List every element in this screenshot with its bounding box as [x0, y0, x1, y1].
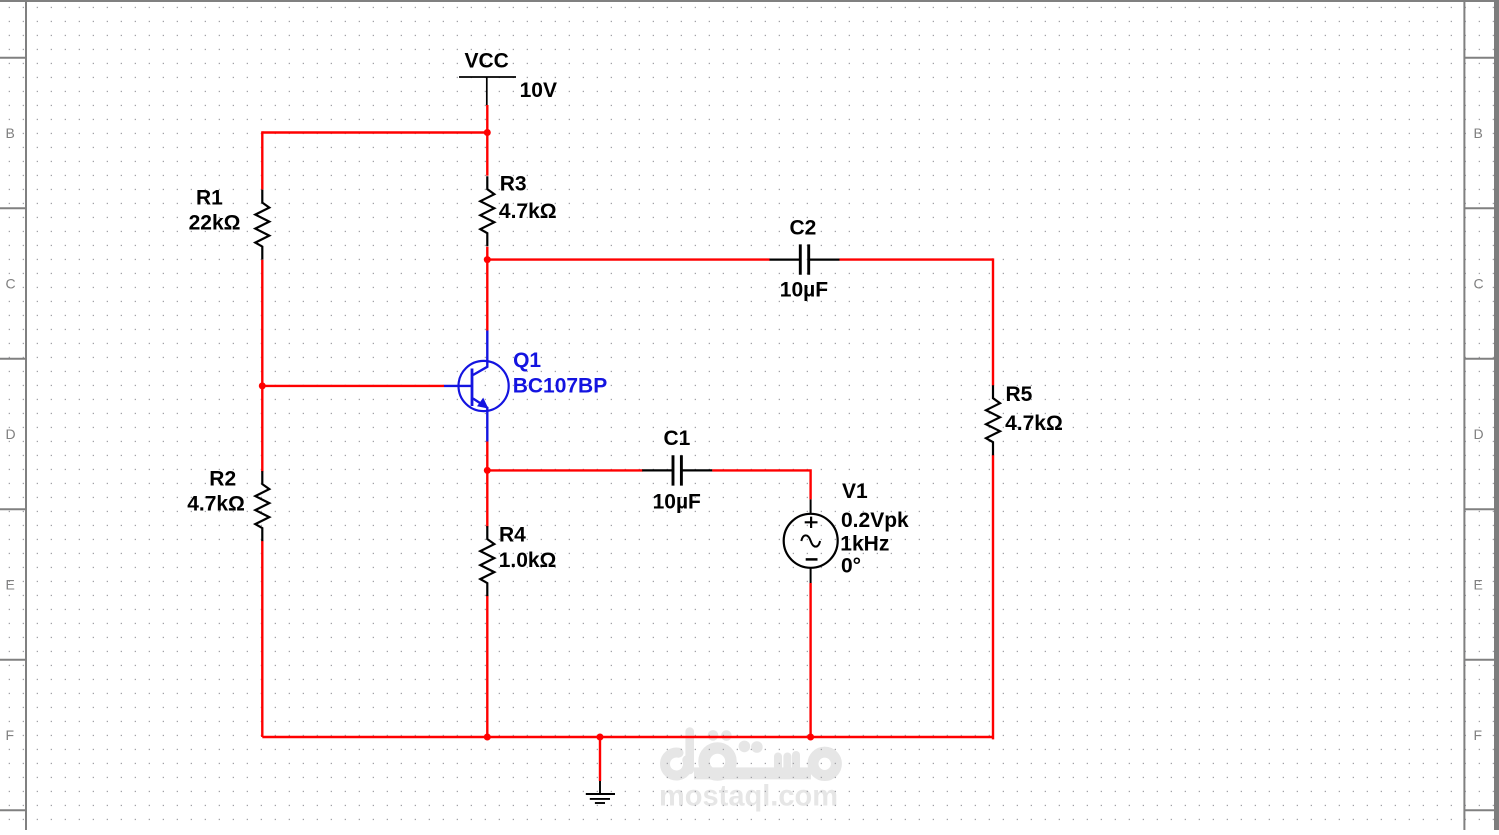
- wire left column: R2 to bottom rail: [261, 541, 263, 737]
- frame: right ticks: [1464, 58, 1494, 811]
- capacitor C2: [770, 244, 840, 274]
- resistor R5: [986, 385, 1000, 455]
- svg-text:R1: R1: [196, 187, 223, 210]
- svg-text:V1: V1: [842, 480, 868, 503]
- ac voltage source V1: [784, 499, 838, 583]
- svg-text:0.2Vpk: 0.2Vpk: [841, 509, 909, 532]
- wire left column: R1 to base tap to R2: [261, 260, 263, 472]
- wire V1 bottom to bottom rail: [809, 583, 811, 737]
- frame: left zone letters: [6, 125, 16, 743]
- svg-text:B: B: [6, 125, 15, 141]
- wire VCC lead to top junction: [486, 105, 488, 133]
- VCC power symbol: [459, 77, 516, 105]
- frame: right vertical line: [1463, 0, 1465, 830]
- svg-text:F: F: [6, 727, 15, 743]
- junction dot collector node: [484, 256, 491, 263]
- wire mid column: R4 to bottom rail: [486, 595, 488, 737]
- frame: left ticks: [0, 58, 26, 811]
- frame: right zone letters: [1474, 125, 1484, 743]
- svg-text:C: C: [6, 276, 16, 292]
- svg-text:R3: R3: [500, 172, 527, 195]
- svg-text:B: B: [1474, 125, 1483, 141]
- svg-text:E: E: [6, 577, 15, 593]
- frame: left vertical line: [25, 0, 27, 830]
- wire right column: corner to R5: [992, 258, 994, 385]
- wire mid column: R3 to collector junction: [486, 247, 488, 260]
- svg-text:1.0kΩ: 1.0kΩ: [499, 549, 557, 572]
- junction dot bottom rail ground: [597, 734, 604, 741]
- svg-text:BC107BP: BC107BP: [513, 375, 608, 398]
- wire mid column: Q1 emitter to emitter junction: [486, 442, 488, 471]
- capacitor C1: [642, 455, 712, 485]
- svg-text:1kHz: 1kHz: [840, 533, 889, 556]
- junction dot base tap: [259, 382, 266, 389]
- wire mid column: collector junction to Q1: [486, 258, 488, 330]
- wire left column: top rail to R1: [261, 131, 263, 189]
- wire C1 to V1 corner: [712, 470, 811, 499]
- resistor R3: [480, 176, 494, 246]
- wire mid column: emitter junction to R4: [486, 469, 488, 527]
- svg-text:C2: C2: [790, 216, 817, 239]
- svg-text:4.7kΩ: 4.7kΩ: [187, 492, 245, 515]
- resistor R4: [480, 526, 494, 596]
- junction dot bottom rail R4: [484, 734, 491, 741]
- wire collector rail to C2: [487, 258, 769, 260]
- svg-text:C1: C1: [664, 427, 691, 450]
- wire top rail R1 to VCC column: [262, 131, 487, 133]
- svg-text:22kΩ: 22kΩ: [189, 212, 241, 235]
- wire ground stub: [599, 737, 601, 781]
- watermark mostaql logo: [665, 732, 836, 776]
- svg-text:10µF: 10µF: [653, 491, 701, 514]
- svg-text:R4: R4: [499, 524, 526, 547]
- svg-text:10µF: 10µF: [780, 279, 828, 302]
- wire C2 to right column corner: [840, 258, 994, 260]
- svg-text:4.7kΩ: 4.7kΩ: [499, 200, 557, 223]
- wire emitter rail to C1: [487, 469, 643, 471]
- svg-text:VCC: VCC: [465, 49, 509, 72]
- frame: top line: [0, 0, 1499, 2]
- wire base rail: [262, 385, 444, 387]
- Q1 emitter arrow: [478, 399, 488, 408]
- ground: [586, 781, 615, 803]
- svg-text:C: C: [1474, 276, 1484, 292]
- svg-text:10V: 10V: [520, 79, 557, 102]
- svg-text:Q1: Q1: [513, 349, 541, 372]
- wire bottom rail: [262, 736, 993, 738]
- wire mid column: junction to R3: [486, 131, 488, 175]
- svg-text:R5: R5: [1006, 383, 1033, 406]
- svg-text:D: D: [1474, 426, 1484, 442]
- resistor R1: [255, 190, 269, 260]
- svg-text:E: E: [1474, 577, 1483, 593]
- svg-text:D: D: [6, 426, 16, 442]
- svg-text:4.7kΩ: 4.7kΩ: [1005, 412, 1063, 435]
- transistor Q1: [444, 331, 509, 442]
- frame: right dark strip: [1494, 0, 1499, 830]
- svg-text:0°: 0°: [841, 555, 861, 578]
- wire right column: R5 to bottom rail: [992, 455, 993, 739]
- svg-text:R2: R2: [209, 468, 236, 491]
- resistor R2: [255, 471, 269, 541]
- junction dot emitter node: [484, 467, 491, 474]
- junction dot bottom rail V1: [807, 734, 814, 741]
- junction dot top: [484, 129, 491, 136]
- svg-text:F: F: [1474, 727, 1483, 743]
